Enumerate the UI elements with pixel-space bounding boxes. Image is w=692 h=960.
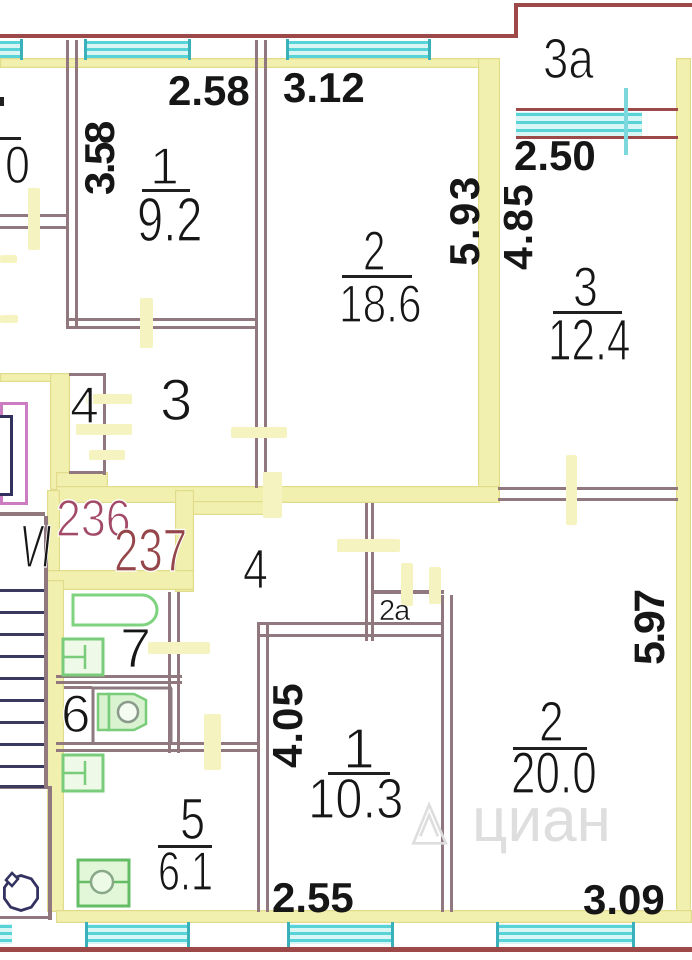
room1 fraction bar bbox=[142, 189, 190, 192]
room1 number bbox=[150, 141, 179, 193]
door corridor3 through south band bbox=[263, 472, 282, 518]
room3 area 12.4 bbox=[548, 312, 630, 370]
bathtub bbox=[70, 592, 166, 628]
corridor south yellow band bbox=[56, 486, 500, 503]
room1b north wall bbox=[257, 622, 444, 625]
dim 3.09 bbox=[583, 879, 665, 921]
door marks near closet4 bbox=[86, 394, 132, 404]
apartment number 237 bbox=[114, 521, 187, 581]
window room1 bbox=[85, 41, 190, 58]
bathroom top yellow band bbox=[47, 570, 194, 590]
closet4 bottom wall bbox=[69, 471, 106, 474]
corridor label 3 bbox=[160, 372, 192, 430]
closet4 left yellow wall bbox=[50, 373, 70, 490]
stair treads bbox=[0, 589, 44, 592]
dim 2.58 bbox=[168, 70, 250, 112]
door marks closet 2a bbox=[401, 563, 413, 606]
room2 area 18.6 bbox=[339, 278, 422, 331]
window room2 bbox=[287, 41, 430, 58]
room2 number bbox=[363, 223, 385, 279]
chute enclosure top bbox=[0, 786, 52, 789]
stair landing line bbox=[0, 512, 45, 516]
wall bath|toilet bbox=[56, 675, 182, 678]
room3 fraction bar bbox=[553, 311, 622, 314]
elevator shaft bbox=[0, 402, 28, 505]
apartment number 236 bbox=[56, 493, 131, 545]
balcony 3a left wall bbox=[514, 3, 518, 38]
garbage chute bbox=[0, 866, 50, 918]
west yellow wall kitchen/bath bbox=[47, 580, 64, 912]
dim 4.85 (vertical) bbox=[498, 182, 539, 270]
window room1b bbox=[288, 924, 394, 944]
wall room2|room3 yellow bbox=[478, 58, 500, 490]
closet label 4 bbox=[70, 380, 99, 432]
balcony label 3a bbox=[543, 31, 594, 88]
yellow band above elevator bbox=[0, 373, 58, 382]
dim 3.12 bbox=[283, 67, 365, 109]
wall tick V1 top bbox=[66, 40, 69, 58]
closet4 top wall bbox=[69, 373, 106, 376]
wall room1|room2 V2 bbox=[255, 58, 258, 488]
window bottom left stub bbox=[0, 924, 12, 944]
room1b west wall bbox=[257, 625, 260, 912]
dim 5.93 (vertical) bbox=[444, 174, 486, 266]
bath label 7 bbox=[120, 620, 151, 676]
door mark left room H1 bbox=[0, 255, 17, 263]
watermark text bbox=[472, 790, 611, 852]
closet label 2a bbox=[379, 597, 409, 626]
wall bath|hall east bbox=[168, 592, 171, 753]
room1 area 9.2 bbox=[137, 190, 203, 252]
closet 2a top wall bbox=[374, 590, 444, 594]
room1b area 10.3 bbox=[308, 771, 403, 828]
room2b area 20.0 bbox=[511, 745, 597, 803]
window room2b bbox=[497, 924, 635, 944]
room1b east wall bbox=[441, 595, 444, 912]
bathroom sink bbox=[60, 636, 106, 678]
dim 3.58 (vertical) bbox=[79, 123, 121, 195]
hall label 4 bbox=[243, 541, 268, 597]
dim 2.55 bbox=[272, 877, 354, 919]
yellow band under closet4 bbox=[56, 472, 108, 490]
door room3 south bbox=[566, 455, 577, 525]
balcony window top line bbox=[516, 108, 678, 111]
balcony window glazing bbox=[516, 112, 642, 136]
dim 5.97 (vertical) bbox=[629, 591, 672, 665]
dim 4.05 (vertical) bbox=[267, 682, 309, 768]
elevator car bbox=[0, 415, 13, 496]
balcony 3a top wall bbox=[514, 3, 692, 7]
wall room3 south bbox=[498, 487, 678, 490]
toilet bbox=[90, 684, 176, 748]
wall room1 south H2 bbox=[66, 318, 258, 321]
top exterior wall line bbox=[0, 34, 516, 38]
hall west yellow wall bbox=[175, 490, 194, 592]
dim 2.50 bbox=[514, 135, 596, 177]
toilet label 6 bbox=[61, 688, 90, 741]
door bathroom bbox=[148, 642, 210, 654]
vestibule wall hall|room2b bbox=[365, 503, 368, 641]
bottom south yellow band bbox=[56, 910, 692, 923]
room2b fraction bar bbox=[513, 747, 587, 750]
window kitchen bbox=[86, 924, 190, 944]
stairwell right wall bbox=[44, 516, 48, 788]
chute enclosure right bbox=[48, 786, 52, 920]
watermark triangle bbox=[408, 799, 452, 849]
right exterior yellow wall bbox=[676, 58, 691, 923]
window left room bbox=[0, 41, 23, 58]
wall toilet south / kitchen north bbox=[56, 742, 257, 745]
entry vestibule west yellow strip bbox=[47, 490, 60, 590]
corridor band lower step bbox=[182, 501, 269, 515]
left room area label bbox=[0, 137, 21, 140]
room1b number bbox=[343, 721, 375, 778]
door room2 through V2 bbox=[231, 427, 287, 438]
room2b number bbox=[539, 694, 564, 751]
bottom exterior wall line bbox=[0, 947, 692, 952]
room2 fraction bar bbox=[342, 275, 412, 278]
room1b fraction bar bbox=[328, 772, 390, 775]
kitchen area 6.1 bbox=[158, 844, 213, 899]
kitchen sink bbox=[60, 752, 106, 794]
closet4 right wall bbox=[103, 373, 106, 475]
stair landing label VI bbox=[20, 517, 51, 577]
kitchen number 5 bbox=[180, 791, 205, 849]
door kitchen bbox=[204, 714, 221, 770]
room3 number bbox=[573, 259, 598, 315]
wall left rooms H1 bbox=[0, 214, 67, 217]
toilet niche top line extension bbox=[64, 686, 92, 689]
wire top interior yellow wall band bbox=[0, 58, 500, 68]
wall left|room1 V1 bbox=[66, 58, 69, 329]
chute enclosure bottom bbox=[0, 916, 51, 919]
balcony window bottom line bbox=[516, 136, 678, 139]
door hall to room2b bbox=[337, 539, 400, 552]
stove bbox=[75, 857, 132, 910]
wall tick V2 top bbox=[255, 40, 258, 58]
kitchen fraction bar bbox=[158, 845, 212, 848]
door room1 through H2 bbox=[140, 298, 153, 348]
balcony window division tick bbox=[624, 88, 628, 155]
